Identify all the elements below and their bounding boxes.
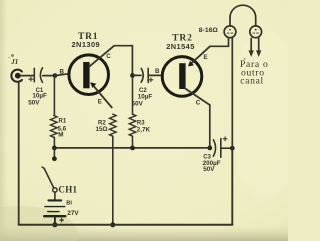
svg-text:E: E bbox=[98, 99, 102, 106]
wire jack down to C3 bbox=[231, 38, 233, 148]
label C1 value bbox=[28, 88, 47, 107]
label R1 value bbox=[58, 119, 67, 139]
node TR2 collector / C3 bbox=[207, 146, 212, 151]
svg-text:J1: J1 bbox=[10, 58, 18, 66]
svg-text:50V: 50V bbox=[28, 100, 40, 107]
svg-text:canal: canal bbox=[240, 76, 264, 87]
svg-text:CH1: CH1 bbox=[58, 184, 77, 194]
supply mid rail bbox=[54, 147, 209, 149]
node battery to rail bbox=[52, 222, 57, 227]
svg-text:2N1545: 2N1545 bbox=[166, 42, 195, 51]
resistor R1 bbox=[51, 76, 58, 148]
speaker jack right bbox=[250, 26, 262, 38]
wire C3 down to bottom rail bbox=[231, 148, 233, 225]
label B1 value bbox=[66, 200, 79, 217]
svg-text:50V: 50V bbox=[132, 100, 144, 107]
label Para o outro canal bbox=[240, 59, 268, 87]
wire arc linking jacks bbox=[230, 5, 256, 26]
ground wire left vertical bbox=[18, 82, 20, 225]
node R3 bottom bbox=[130, 146, 135, 151]
label C3 value bbox=[203, 155, 221, 173]
label R3 value bbox=[137, 121, 151, 134]
capacitor C1 bbox=[29, 68, 43, 83]
svg-text:B: B bbox=[155, 68, 160, 75]
svg-text:10µF: 10µF bbox=[32, 93, 47, 100]
resistor R3 bbox=[129, 114, 136, 148]
svg-text:2,7K: 2,7K bbox=[137, 126, 151, 133]
svg-text:C: C bbox=[196, 99, 201, 106]
node collector TR1 / C2 / R3 bbox=[130, 73, 135, 78]
svg-text:R1: R1 bbox=[59, 119, 67, 125]
wire node to C2 bbox=[133, 74, 142, 76]
input jack J1 bbox=[11, 70, 22, 82]
svg-text:2N1309: 2N1309 bbox=[72, 40, 101, 49]
wire TR2 emitter to speaker jack bbox=[210, 38, 229, 46]
svg-text:15Ω: 15Ω bbox=[96, 126, 108, 133]
wire node to TR1 base bbox=[55, 74, 68, 76]
capacitor C3 bbox=[213, 137, 232, 157]
node R2 line to rail bbox=[110, 222, 115, 227]
capacitor C2 bbox=[141, 68, 153, 82]
svg-text:27V: 27V bbox=[67, 210, 79, 217]
label C2 value bbox=[132, 88, 153, 107]
wire TR2 collector down bbox=[209, 105, 211, 148]
wire J1 to C1 bbox=[20, 75, 34, 77]
speaker jack left bbox=[224, 26, 236, 38]
node rail left / switch bbox=[52, 146, 57, 151]
wire C1 to base node bbox=[43, 75, 55, 77]
label R2 value bbox=[96, 120, 108, 133]
svg-text:50V: 50V bbox=[203, 166, 215, 173]
svg-text:8-16Ω: 8-16Ω bbox=[199, 27, 219, 34]
transistor TR1 bbox=[69, 46, 114, 108]
battery B1 bbox=[44, 200, 65, 224]
wire TR1 collector top run bbox=[114, 46, 132, 76]
node C3 plus bbox=[230, 146, 235, 151]
svg-text:C: C bbox=[106, 53, 111, 60]
svg-text:E: E bbox=[204, 54, 208, 61]
resistor R2 bbox=[110, 114, 117, 225]
transistor TR2 bbox=[162, 46, 210, 105]
bottom rail bbox=[19, 224, 233, 226]
svg-text:B: B bbox=[60, 68, 65, 75]
arrows to other channel bbox=[249, 38, 262, 57]
wire C2 to TR2 base bbox=[148, 74, 162, 76]
svg-text:BI: BI bbox=[66, 200, 72, 206]
node base TR1 bbox=[53, 73, 58, 78]
wire node down to R3 bbox=[132, 75, 134, 114]
svg-text:M: M bbox=[58, 131, 63, 138]
switch CH1 bbox=[42, 148, 57, 200]
